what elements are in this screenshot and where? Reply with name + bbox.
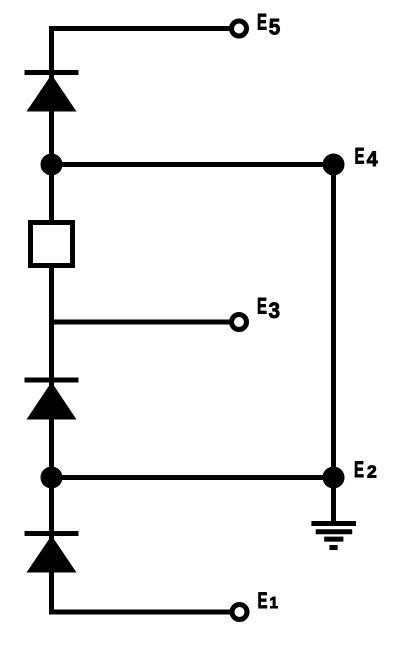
junction dot (left, E2 row)	[41, 467, 63, 489]
svg-text:E: E	[355, 144, 365, 169]
node E4 dot	[323, 154, 345, 176]
svg-text:5: 5	[269, 15, 281, 40]
node E2 dot	[323, 467, 345, 489]
wire: right vertical rail E4 to E2	[331, 165, 336, 478]
terminal E5 (open circle)	[232, 21, 247, 36]
component box (unlabeled)	[31, 223, 73, 266]
svg-text:E: E	[258, 588, 268, 613]
svg-text:2: 2	[367, 462, 377, 482]
label E1	[258, 588, 279, 613]
ground symbol	[311, 524, 356, 548]
label E5	[257, 10, 280, 40]
svg-text:3: 3	[269, 298, 281, 323]
junction dot (left, E4 row)	[41, 154, 63, 176]
terminal E3 (open circle)	[232, 315, 247, 330]
wire: E4 horizontal row	[52, 162, 334, 167]
svg-text:1: 1	[270, 595, 279, 612]
wire: E2 horizontal row	[52, 475, 334, 480]
svg-text:E: E	[257, 294, 267, 319]
diode D3 (bottom)	[25, 534, 79, 573]
diode D1 (top)	[25, 73, 79, 112]
svg-text:4: 4	[367, 148, 378, 171]
wire: ground stem	[331, 478, 336, 524]
diode D2 (middle)	[25, 380, 79, 420]
svg-text:E: E	[257, 10, 267, 35]
label E4	[355, 144, 379, 172]
wire: bottom horizontal to E1 terminal	[49, 610, 232, 615]
svg-text:E: E	[354, 457, 364, 482]
label E2	[354, 457, 377, 482]
label E3	[257, 294, 280, 324]
terminal E1 (open circle)	[232, 605, 247, 620]
wire: top horizontal to E5 terminal	[49, 26, 232, 31]
wire: E3 stub to terminal	[52, 320, 232, 325]
wire: left vertical rail	[49, 26, 54, 615]
